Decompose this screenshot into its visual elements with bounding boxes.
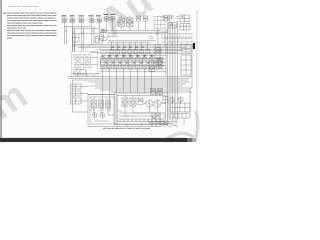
solenoid valve SVB [127, 16, 134, 30]
terminal dashes at drop ends [102, 109, 111, 111]
valve block VB1 [154, 17, 165, 29]
valve RV5 right [158, 89, 163, 95]
page left edge [0, 0, 3, 141]
MPB internal wires [117, 96, 166, 120]
pilot valve PV1 [61, 18, 67, 23]
check valve cluster CV1 [96, 37, 103, 44]
registration mark [193, 43, 195, 49]
cable bundle right [168, 16, 178, 122]
terminal strip TS1 [162, 34, 192, 38]
schematic [61, 14, 192, 127]
right mid box RB2 [181, 55, 191, 75]
wire stubs above solenoids [103, 54, 152, 58]
relay block R2 [71, 91, 82, 96]
wire bus upper [100, 30, 162, 32]
control valve group box (dashed) [72, 52, 98, 76]
mid-right tick marks [149, 30, 169, 41]
pilot valve PV7 [110, 17, 116, 22]
terminal strip TS2 [162, 39, 192, 43]
wire risers mid [155, 44, 166, 76]
solenoid valve SV9 [157, 58, 162, 69]
mid circle c1 [151, 60, 154, 63]
pilot valve PV4 [89, 18, 95, 23]
relay block R3 [71, 98, 82, 104]
wire left drop [72, 29, 74, 52]
wire bus lower [68, 76, 192, 78]
watermark letter A [92, 0, 161, 45]
valve V6 in PB1 [92, 100, 97, 108]
solenoid valve SVA [118, 16, 125, 30]
junction box J1 [73, 34, 80, 43]
valve V4 in group [84, 62, 91, 68]
solenoid band cross wires [100, 59, 166, 69]
caption: figure title [103, 127, 150, 130]
solenoid valve SV8 [149, 58, 156, 69]
relief valve RV2 [144, 16, 148, 30]
wire right lower drops [173, 45, 193, 127]
top right marks TM1 [170, 15, 180, 20]
right mid box RB1 [181, 45, 191, 53]
valve V11 in MPB [138, 98, 143, 105]
solenoid valve SV3 [114, 58, 121, 69]
solenoid labels [101, 56, 153, 57]
page right edge shadow [196, 10, 199, 138]
pilot valve PV3 [78, 18, 84, 23]
pump P1 [92, 113, 97, 118]
pilot valve PV5 [96, 18, 102, 23]
motor cluster MC2 [178, 97, 183, 102]
header line [8, 5, 38, 8]
relay block R1 [71, 84, 82, 89]
valve V5 in group [74, 70, 86, 75]
MPB bottom hatch [120, 119, 160, 122]
valve V2 in group [84, 55, 91, 61]
solenoid valve SV7 [142, 58, 149, 69]
wire bottom cross right [148, 122, 178, 124]
pilot valve PV6 [103, 17, 109, 22]
wire bus mid1 [73, 44, 193, 46]
cooler block CB1 [170, 103, 190, 112]
mid cluster MC0 [155, 48, 161, 54]
valve V9 in MPB [122, 98, 128, 106]
terminal riser ticks [112, 42, 148, 50]
mid valve MV1 [158, 58, 164, 66]
pilot valve PV2 [69, 18, 75, 23]
top right valve TB2 [169, 23, 177, 29]
pump P3 [146, 100, 153, 107]
valve V10 in MPB [130, 98, 136, 106]
watermark letter m [0, 73, 35, 128]
group internal wires [78, 57, 98, 69]
watermark right-edge curve [195, 111, 198, 139]
solenoid valve SV1 [100, 58, 107, 69]
wire risers to top right [158, 29, 188, 48]
wire drop bottoms [127, 90, 160, 127]
wire drops from pilot valves [63, 23, 65, 45]
wire drops right of MPB [152, 112, 164, 127]
pump P2 [100, 113, 105, 118]
wire bus mid3 [108, 40, 150, 42]
solenoid valve SV6 [135, 58, 142, 69]
valve V7 in PB1 [99, 100, 104, 108]
P0 top marks [102, 29, 107, 33]
right cluster lower marks [170, 114, 190, 119]
wire drop mesh [67, 26, 102, 51]
page bottom scan band [0, 138, 187, 142]
small circles bottom right [158, 113, 161, 116]
solenoid valve SV5 [128, 58, 135, 69]
relief valve RV1 [137, 16, 141, 30]
motor cluster MC1 [170, 97, 175, 102]
wire left risers [78, 74, 95, 77]
label row (top pilot valves) [62, 14, 116, 17]
top right cluster TB3 [180, 24, 190, 31]
valve V8 in PB1 [106, 100, 111, 108]
wire diagonals bottom right [150, 115, 164, 127]
paragraph text block [3, 13, 57, 39]
pilot control box PB1 [88, 95, 117, 127]
relief valve RV3 [163, 16, 170, 21]
wire left lower drop [73, 80, 89, 112]
PB1 internal wires [90, 99, 109, 122]
top right block TB1 [180, 15, 190, 22]
solenoid band inter verticals [106, 58, 162, 69]
terminal row TR [110, 50, 149, 54]
relief box RB3 [163, 97, 168, 103]
pump P0 circle [99, 32, 108, 41]
solenoid valve SV4 [121, 58, 128, 69]
valve V1 in group [74, 55, 81, 61]
wire bus mid2 [97, 48, 190, 50]
wire drops below solenoids to pump box [103, 69, 152, 111]
wire top cross runs [64, 26, 92, 28]
watermark bottom-right arc [164, 133, 197, 141]
wire bottom runs [73, 111, 89, 113]
terminal row labels [111, 46, 144, 49]
main pump box MPB [114, 93, 168, 124]
pump P4 [154, 100, 161, 107]
valve RV4 right [151, 89, 156, 95]
valve V3 in group [74, 62, 81, 68]
solenoid valve SV2 [107, 58, 114, 69]
mid box MB2 [150, 66, 155, 72]
